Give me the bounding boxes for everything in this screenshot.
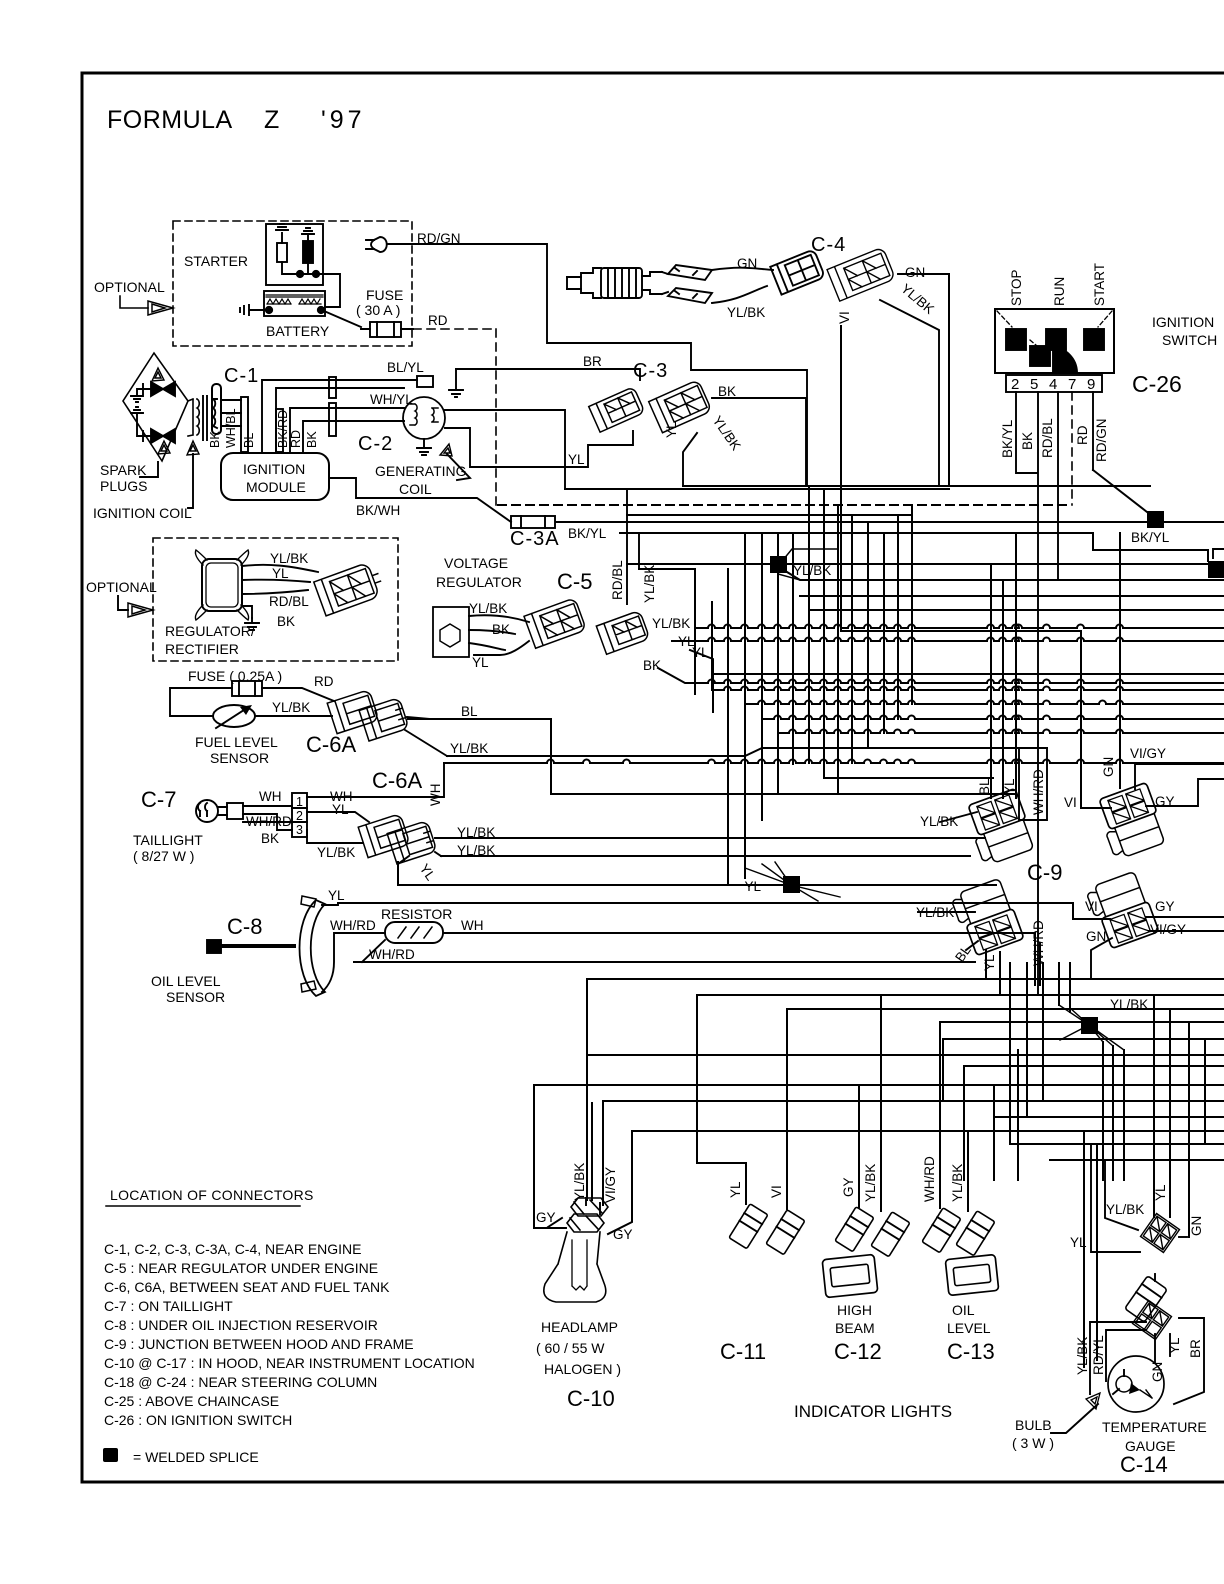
svg-text:YL/BK: YL/BK (1075, 1337, 1090, 1375)
svg-text:C-3: C-3 (633, 360, 668, 382)
wire YL/BK temp gauge (1090, 1322, 1146, 1394)
wire YL/BK y838 (441, 837, 985, 839)
connector C-9 C (950, 877, 1024, 957)
svg-text:C-11: C-11 (720, 1339, 766, 1364)
svg-text:YL/BK: YL/BK (727, 305, 765, 320)
wire mesh h y688 (658, 668, 1224, 683)
svg-text:HALOGEN ): HALOGEN ) (544, 1361, 621, 1377)
wire VI x841 (840, 326, 842, 631)
svg-text:BL: BL (461, 704, 478, 719)
wire VI/GY from C-9D (1149, 930, 1224, 932)
svg-text:RD/GN: RD/GN (417, 231, 461, 246)
svg-text:YL: YL (272, 566, 289, 581)
indicator connector C-11 b (766, 1210, 805, 1255)
svg-text:VI: VI (837, 311, 852, 324)
regulator optional dashed box (153, 538, 398, 661)
wires from C-7 (307, 763, 444, 843)
svg-text:GN: GN (1101, 757, 1116, 777)
wire right cluster verticals (1009, 963, 1011, 1144)
svg-text:C-1, C-2, C-3, C-3A, C-4, NEAR: C-1, C-2, C-3, C-3A, C-4, NEAR ENGINE (104, 1241, 362, 1257)
wire YL/BK from C-6A (405, 730, 447, 756)
svg-text:OIL LEVEL: OIL LEVEL (151, 973, 221, 989)
svg-text:Z: Z (264, 106, 279, 134)
starter optional dashed box (173, 221, 412, 346)
G_COMP (123, 221, 807, 528)
svg-text:SENSOR: SENSOR (166, 989, 225, 1005)
connector C-3 half A (589, 387, 645, 433)
svg-text:RD/YL: RD/YL (1091, 1335, 1106, 1375)
svg-text:RECTIFIER: RECTIFIER (165, 641, 239, 657)
wire YL from C-6A2 (398, 856, 409, 864)
wire mesh vertical v4 (744, 533, 746, 878)
svg-text:( 3 W ): ( 3 W ) (1012, 1435, 1054, 1451)
wire RD optional dashed bus (498, 504, 1069, 506)
wire YL temp gauge (1169, 1334, 1171, 1356)
svg-text:C-5 : NEAR REGULATOR UNDER ENG: C-5 : NEAR REGULATOR UNDER ENGINE (104, 1260, 378, 1276)
svg-text:GN: GN (905, 265, 925, 280)
welded splice A4 (783, 876, 800, 893)
svg-text:YL: YL (1070, 1235, 1087, 1250)
taillight bulb L1 (196, 800, 218, 822)
svg-text:STOP: STOP (1009, 269, 1024, 306)
wire headlamp GY right (608, 1131, 632, 1234)
wire bus 4 (627, 514, 912, 516)
spade terminal GN (668, 265, 712, 280)
wire mesh vertical v7 (792, 533, 794, 764)
wire BL from C-6A y719 (408, 718, 551, 720)
wire v right x1016 to C-9 (1015, 533, 1017, 798)
svg-text:BK/YL: BK/YL (568, 526, 607, 541)
wire RD/GN to switch (391, 244, 807, 486)
svg-text:BL: BL (977, 778, 992, 795)
labels bottom (916, 746, 1186, 971)
svg-text:IGNITION COIL: IGNITION COIL (93, 505, 192, 521)
ground generating coil (417, 439, 431, 455)
wire WH y763 (444, 760, 1224, 763)
wire VI to C-9 (841, 631, 1081, 808)
wire mesh h y778 (824, 777, 993, 779)
svg-text:C-26 : ON IGNITION SWITCH: C-26 : ON IGNITION SWITCH (104, 1412, 292, 1428)
spade lug RD/GN (366, 237, 391, 252)
wire mesh h y596 (800, 595, 1224, 597)
svg-text:C-25 : ABOVE CHAINCASE: C-25 : ABOVE CHAINCASE (104, 1393, 279, 1409)
svg-text:BK: BK (492, 622, 510, 637)
wire mesh B h y1039 (943, 1038, 1224, 1040)
svg-text:BATTERY: BATTERY (266, 323, 330, 339)
mesh labels (744, 530, 1169, 1012)
voltage regulator U3 (433, 607, 469, 657)
wire temp conn1 to conn2 (1154, 1274, 1156, 1281)
wire YL/BK from C-4 (880, 300, 939, 486)
wire mesh h y564 (627, 563, 1224, 565)
indicator connector C-13 b (956, 1211, 995, 1256)
wire BK/WH module to C-3A (329, 478, 511, 522)
wire WH/RD box at C-9A (1019, 748, 1047, 820)
svg-text:HEADLAMP: HEADLAMP (541, 1319, 618, 1335)
svg-text:YL/BK: YL/BK (457, 825, 495, 840)
wires coil outputs (445, 410, 633, 489)
svg-text:YL: YL (328, 888, 345, 903)
indicator connector C-12 a (835, 1207, 874, 1252)
svg-text:YL/BK: YL/BK (572, 1163, 587, 1201)
svg-text:4: 4 (1049, 376, 1057, 393)
svg-text:BK: BK (261, 831, 279, 846)
svg-text:REGULATOR: REGULATOR (436, 574, 522, 590)
wire RD/YL temp gauge (1106, 1330, 1146, 1381)
splice A4 fan (745, 862, 840, 901)
wire GY from C-9B (1146, 549, 1224, 806)
fuse F2 0.25A (232, 681, 262, 696)
wires module to coils (262, 380, 417, 453)
wire GN from C-9D (1091, 938, 1112, 979)
svg-text:VI: VI (1064, 795, 1077, 810)
headlamp bulb body (544, 1232, 606, 1302)
svg-text:YL/BK: YL/BK (457, 843, 495, 858)
svg-text:WH/RD: WH/RD (369, 947, 415, 962)
svg-text:YL: YL (1167, 1337, 1182, 1354)
wire mesh vertical v12 (867, 524, 869, 748)
svg-text:BULB: BULB (1015, 1417, 1052, 1433)
wire YL y903 (338, 903, 1073, 919)
wire GN from C-4 (898, 273, 949, 275)
connector C-5 half A (524, 598, 586, 648)
ignition switch box C-26 (995, 309, 1114, 373)
svg-text:C-12: C-12 (834, 1339, 882, 1364)
svg-text:C-7 : ON TAILLIGHT: C-7 : ON TAILLIGHT (104, 1298, 233, 1314)
svg-text:5: 5 (1030, 376, 1038, 393)
wire YL/BK y856 (441, 855, 970, 857)
wires into bulb (586, 1198, 600, 1214)
temp connector C-14 upper (1141, 1214, 1180, 1253)
svg-text:BK: BK (718, 384, 736, 399)
optional arrow 2 (118, 596, 128, 610)
svg-text:C-1: C-1 (224, 365, 259, 387)
wire headlamp GY left (533, 1085, 535, 1228)
wire bus BK/YL to splice (556, 521, 1224, 523)
arrow generating coil (440, 444, 452, 456)
wire BK from C-3 (712, 398, 806, 486)
wire BR (456, 369, 640, 380)
svg-text:YL: YL (692, 645, 709, 660)
wire mesh B h y979 (587, 978, 1224, 980)
wire mesh B h y1085 (534, 1084, 1224, 1086)
fuse C-3A (511, 516, 555, 528)
connector C-5 half B (596, 610, 649, 654)
svg-text:FUSE: FUSE (366, 287, 403, 303)
svg-text:2: 2 (1011, 376, 1019, 393)
svg-text:VI: VI (769, 1185, 784, 1198)
wire mesh h y704 (745, 701, 1224, 704)
wire BL from C-6A (407, 717, 430, 719)
wire C-11 YL drop (697, 995, 746, 1204)
wire C-11 VI drop (786, 1009, 788, 1209)
svg-text:GY: GY (536, 1210, 556, 1225)
welded splice B1 (1081, 1017, 1098, 1034)
wire BR temp gauge (1174, 1318, 1204, 1404)
svg-text:( 30 A ): ( 30 A ) (356, 302, 400, 318)
svg-text:BK: BK (643, 658, 661, 673)
spark plug P1 (151, 382, 175, 396)
svg-text:BK: BK (277, 614, 295, 629)
svg-text:VI: VI (1085, 899, 1098, 914)
svg-text:BR: BR (1188, 1339, 1203, 1358)
splice squares (770, 511, 1224, 1034)
svg-text:YL/BK: YL/BK (1106, 1202, 1144, 1217)
wire mesh h y626 (639, 569, 1224, 695)
wire mesh h y884 with splice fan (397, 862, 399, 885)
svg-text:YL/BK: YL/BK (272, 700, 310, 715)
wire headlamp YL/BK (587, 979, 592, 1200)
connector C-3 half B (649, 380, 712, 433)
rotated pin labels C-1/C-2 (208, 408, 319, 448)
wire mesh vertical v14 (897, 515, 899, 719)
temperature gauge M1 (1108, 1356, 1164, 1412)
wire C-9 row2 feeds (986, 943, 1040, 995)
wire mesh B h y1160 (1050, 1159, 1224, 1161)
wires regulator to connector (242, 565, 318, 618)
wire mesh vertical v11 (851, 515, 853, 763)
wire YL/BK y748 (447, 748, 1047, 756)
svg-text:BK/RD: BK/RD (276, 410, 290, 448)
wire mesh h y674 (712, 673, 1224, 675)
connector C-9 D (1085, 870, 1159, 950)
svg-text:WH/RD: WH/RD (1031, 769, 1046, 815)
svg-text:YL/BK: YL/BK (270, 551, 308, 566)
svg-text:BL: BL (242, 433, 256, 448)
fuel level sensor R3 (213, 705, 255, 727)
svg-text:YL: YL (417, 861, 439, 884)
svg-text:YL: YL (332, 802, 349, 817)
svg-text:TAILLIGHT: TAILLIGHT (133, 832, 203, 848)
svg-text:WH: WH (259, 789, 282, 804)
oil level indicator lamp (945, 1254, 998, 1295)
wire mesh B h y1131 (633, 1130, 1224, 1132)
svg-text:RD/BL: RD/BL (610, 560, 625, 600)
svg-text:OIL: OIL (952, 1302, 975, 1318)
svg-text:'97: '97 (321, 106, 366, 134)
svg-text:RESISTOR: RESISTOR (381, 906, 452, 922)
wire mesh vertical v13 (883, 533, 885, 733)
wire GN temp conn1 (1179, 1236, 1187, 1238)
svg-text:BR: BR (583, 354, 602, 369)
wire C-9 pins BL YL verticals (991, 564, 1003, 798)
wires C-5 down-feeds (627, 489, 639, 604)
svg-text:RD/BL: RD/BL (269, 594, 309, 609)
svg-text:BK: BK (305, 431, 319, 448)
wire mesh vertical v9 (823, 489, 825, 778)
wires vreg to C-5 (469, 615, 529, 655)
svg-text:YL: YL (728, 1181, 743, 1198)
svg-text:START: START (1092, 263, 1107, 306)
resistor R1 (385, 922, 443, 943)
arrow ignition coil (187, 441, 199, 455)
svg-text:C-18 @ C-24 : NEAR STEERING CO: C-18 @ C-24 : NEAR STEERING COLUMN (104, 1374, 377, 1390)
svg-text:YL/BK: YL/BK (317, 845, 355, 860)
ground regulator BK (245, 618, 259, 630)
ignition switch labels (1009, 263, 1107, 306)
svg-text:VI/GY: VI/GY (1150, 922, 1186, 937)
splice B1 fan (1059, 1005, 1124, 1050)
wire C-13 YL/BK drop (967, 1131, 969, 1211)
spark plug P2 (151, 429, 175, 443)
svg-text:GN: GN (1189, 1216, 1204, 1236)
wire VI into C-9D (1073, 918, 1110, 920)
svg-text:BK/YL: BK/YL (1131, 530, 1170, 545)
svg-text:WH/RD: WH/RD (246, 814, 292, 829)
svg-text:GY: GY (1155, 899, 1175, 914)
wire mesh B h y1117 (994, 1116, 1224, 1118)
wire YL to temp conn1 (1091, 1144, 1140, 1252)
svg-text:WH/RD: WH/RD (922, 1156, 937, 1202)
svg-text:YL: YL (1153, 1184, 1168, 1201)
wire mesh vertical v8 (808, 486, 810, 763)
wire YL/BK from C-3 (683, 433, 697, 486)
svg-text:C-6, C6A, BETWEEN SEAT AND FUE: C-6, C6A, BETWEEN SEAT AND FUEL TANK (104, 1279, 390, 1295)
wire BL into C-9C (966, 941, 978, 950)
wire mesh h y580 (787, 572, 1224, 580)
svg-text:RD: RD (428, 313, 448, 328)
wire C-12 YL/BK drop (880, 995, 882, 1211)
engine kill switch S2 (567, 268, 601, 298)
svg-text:YL: YL (1002, 778, 1017, 795)
wire YL/BK into C-9A (940, 812, 977, 822)
svg-text:C-9 : JUNCTION BETWEEN HOOD AN: C-9 : JUNCTION BETWEEN HOOD AND FRAME (104, 1336, 414, 1352)
spade terminal YL/BK (668, 288, 712, 303)
wire mesh vertical v5 (761, 533, 763, 820)
wire GY from C-9D (1146, 916, 1224, 918)
svg-text:OPTIONAL: OPTIONAL (86, 579, 157, 595)
connector regulator 3D (314, 560, 386, 615)
wires taillight to connector (243, 806, 292, 830)
temp connector C-14 lower pair (1125, 1276, 1168, 1323)
svg-text:RD: RD (1075, 425, 1090, 445)
starter motor S1 (266, 224, 323, 285)
svg-text:( 60 / 55 W: ( 60 / 55 W (536, 1340, 605, 1356)
svg-text:BEAM: BEAM (835, 1320, 875, 1336)
ground near BR (449, 369, 463, 397)
wire bus 2 (565, 488, 949, 490)
svg-text:YL/BK: YL/BK (642, 565, 657, 603)
arrow to spark plug 1 (152, 368, 164, 381)
wire mesh B h y1022 splice (940, 1021, 1224, 1023)
arrow temp bulb 1 (1086, 1393, 1100, 1409)
regulator/rectifier U2 (202, 559, 242, 611)
svg-text:YL/BK: YL/BK (916, 905, 954, 920)
welded splice legend (103, 1448, 118, 1462)
wire WH y933 (444, 933, 1035, 985)
connector C-9 A (963, 788, 1036, 866)
svg-text:YL/BK: YL/BK (863, 1164, 878, 1202)
wire RD dashed from fuse (413, 329, 496, 505)
wire WH/RD y962 (354, 961, 975, 963)
svg-text:YL/BK: YL/BK (450, 741, 488, 756)
svg-text:YL: YL (568, 452, 585, 467)
svg-text:C-26: C-26 (1132, 371, 1182, 397)
wire mesh B h y1009 (787, 1008, 1224, 1010)
switch terminals (1006, 329, 1026, 350)
svg-text:YL: YL (744, 879, 761, 894)
svg-text:C-10: C-10 (567, 1386, 615, 1411)
connector C-9 B (1094, 782, 1167, 860)
svg-text:C-6A: C-6A (372, 768, 422, 793)
svg-text:VOLTAGE: VOLTAGE (444, 555, 508, 571)
svg-text:2: 2 (296, 809, 303, 823)
wire mesh B h y1066 (964, 1065, 1224, 1067)
svg-text:WH: WH (461, 918, 484, 933)
svg-text:C-14: C-14 (1120, 1452, 1168, 1477)
svg-text:WH/RD: WH/RD (330, 918, 376, 933)
svg-text:RD: RD (289, 430, 303, 448)
arrow to spark plug 2 (158, 441, 170, 454)
svg-text:C-9: C-9 (1027, 860, 1062, 885)
connector C-1 (212, 384, 221, 434)
indicator connector C-11 a (729, 1204, 768, 1249)
connector C-7 pins 1-3 (292, 793, 307, 837)
wire mesh vertical v3 (727, 569, 729, 885)
headlamp LP1 bulb base hex A (571, 1198, 608, 1216)
welded splice A1 (770, 556, 787, 573)
wire mesh B h y995 (697, 994, 1224, 996)
wire mesh h y794 (551, 793, 1016, 795)
wire temp gauge leads (1084, 1131, 1097, 1367)
svg-text:YL/BK: YL/BK (793, 563, 831, 578)
wire mesh vertical v2 (711, 602, 713, 690)
wire VI/GY into C-9B (1135, 764, 1224, 789)
svg-text:LOCATION OF CONNECTORS: LOCATION OF CONNECTORS (110, 1187, 314, 1203)
svg-text:VI/GY: VI/GY (603, 1167, 618, 1203)
wire mesh h y658 (690, 650, 1224, 713)
welded splice A2 (1147, 511, 1164, 528)
svg-text:WH/BL: WH/BL (224, 408, 238, 448)
svg-text:COIL: COIL (399, 481, 432, 497)
svg-text:GENERATING: GENERATING (375, 463, 467, 479)
svg-text:VI/GY: VI/GY (1130, 746, 1166, 761)
svg-text:YL: YL (664, 421, 679, 438)
wire mesh B extra verticals (943, 1039, 1018, 1180)
svg-text:INDICATOR LIGHTS: INDICATOR LIGHTS (794, 1402, 952, 1421)
svg-text:LEVEL: LEVEL (947, 1320, 991, 1336)
svg-text:WH/YL: WH/YL (370, 392, 413, 407)
svg-text:GY: GY (613, 1227, 633, 1242)
wire C-12 GY drop (858, 1085, 860, 1207)
arrow temp gauge 2 (1129, 1383, 1140, 1394)
svg-text:C-8 : UNDER OIL INJECTION RESE: C-8 : UNDER OIL INJECTION RESERVOIR (104, 1317, 378, 1333)
svg-text:C-5: C-5 (557, 569, 592, 594)
wire GY headlamp left tail (534, 1218, 566, 1228)
svg-text:9: 9 (1087, 376, 1095, 393)
wire mesh vertical v10 (837, 505, 839, 794)
svg-text:RUN: RUN (1052, 277, 1067, 306)
svg-text:BK/YL: BK/YL (1000, 419, 1015, 458)
svg-text:GY: GY (841, 1177, 856, 1197)
svg-text:RD/GN: RD/GN (1094, 419, 1109, 463)
svg-text:C-6A: C-6A (306, 732, 356, 757)
svg-text:TEMPERATURE: TEMPERATURE (1102, 1419, 1207, 1435)
wire C-13 WH/RD drop (939, 1022, 941, 1208)
wire mesh h y610 (809, 609, 1224, 611)
svg-text:C-2: C-2 (358, 433, 393, 455)
wire mesh vertical v6 (777, 533, 779, 794)
svg-text:PLUGS: PLUGS (100, 478, 147, 494)
svg-text:YL/BK: YL/BK (950, 1164, 965, 1202)
connector C-2 markers (329, 377, 336, 398)
svg-text:FORMULA: FORMULA (107, 106, 233, 134)
svg-text:MODULE: MODULE (246, 479, 306, 495)
svg-text:= WELDED SPLICE: = WELDED SPLICE (133, 1449, 259, 1465)
wire x1120 to C-9 GN (1119, 533, 1121, 788)
svg-text:GY: GY (1155, 794, 1175, 809)
svg-text:RD: RD (314, 674, 334, 689)
